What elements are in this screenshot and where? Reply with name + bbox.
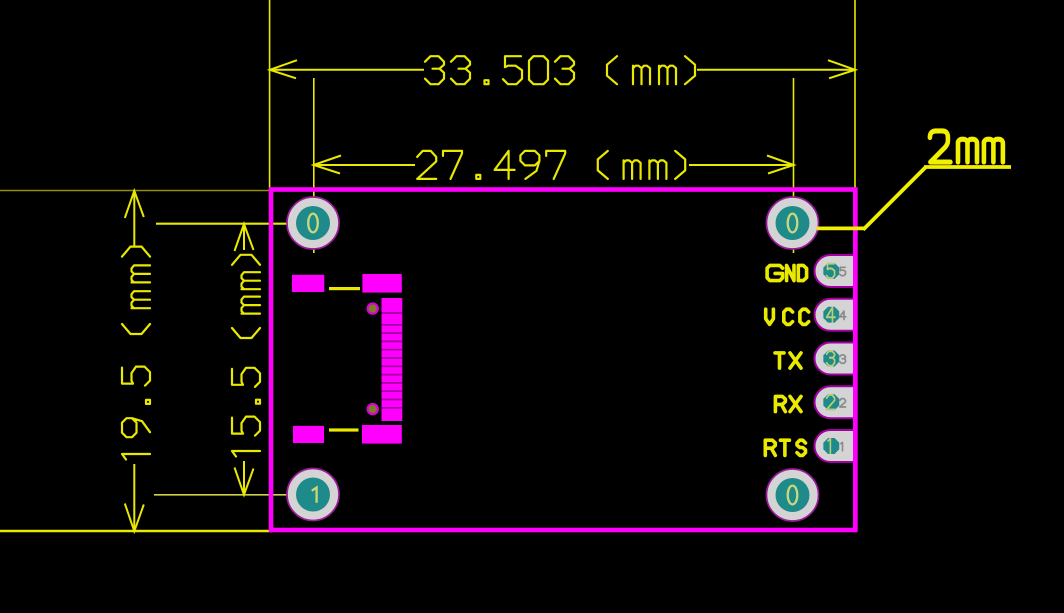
mounting hole H4 bottom-right	[767, 469, 819, 521]
pin pad 3 (TX)	[815, 343, 856, 375]
arrowhead top of dim 15.5	[235, 224, 254, 251]
arrowhead left of dim 27.497	[314, 156, 341, 174]
dimension text 19.5 (mm) rotated	[122, 247, 150, 460]
pin pad 2 (RX)	[815, 386, 856, 418]
pad P2 top-right of USB connector U1	[362, 274, 401, 293]
wire: board right edge overlay	[853, 190, 858, 531]
dimension text 15.5 (mm) rotated	[232, 255, 260, 457]
wire: extension line left of dim 27.497	[313, 78, 315, 253]
pin label RTS	[765, 440, 805, 455]
wire: board-bottom extension line (left, dim 19.5)	[0, 530, 273, 532]
silkscreen line bottom of USB connector U1	[329, 428, 359, 431]
pin pad 4 (VCC)	[815, 299, 856, 331]
dimension 15.5 (mm) vertical line	[235, 224, 254, 495]
wire: hole-bottom connector line (dim 15.5)	[154, 494, 290, 496]
arrowhead right of dim 33.503	[828, 60, 855, 78]
wire: board-top extension line (left, dim 19.5)	[0, 190, 269, 192]
wire: extension line left of dim 33.503	[269, 0, 271, 188]
arrowhead bottom of dim 15.5	[235, 468, 254, 495]
arrowhead left of dim 33.503	[270, 60, 297, 78]
dimension 33.503 (mm) line	[270, 60, 855, 78]
via V2 bottom	[367, 403, 379, 415]
silkscreen line top of USB connector U1	[329, 287, 360, 290]
pad P3 bottom-left of USB connector U1	[293, 426, 324, 443]
dimension 19.5 (mm) vertical line	[125, 191, 144, 531]
mounting hole H1 top-left	[287, 197, 339, 249]
dimension text 27.497 (mm)	[417, 151, 685, 179]
leader line for 2mm callout	[817, 167, 1011, 230]
pin label VCC	[766, 309, 809, 324]
wire: extension line right of dim 33.503	[854, 0, 856, 188]
wire: hole-top connector line (dim 15.5)	[156, 223, 295, 225]
board outline	[271, 190, 855, 531]
dimension 27.497 (mm) line	[314, 156, 794, 174]
pin label RX	[775, 396, 801, 411]
arrowhead right of dim 27.497	[767, 156, 794, 174]
pad P1 top-left of USB connector U1	[292, 275, 324, 292]
callout text 2mm	[930, 131, 1003, 162]
dimension text 33.503 (mm)	[425, 56, 695, 84]
pin pad 1 (RTS)	[815, 430, 856, 462]
mounting hole H3 bottom-left	[287, 469, 339, 521]
pin label GND	[767, 265, 807, 280]
via V1 top	[367, 302, 379, 314]
arrowhead bottom of dim 19.5	[125, 504, 144, 532]
arrowhead top of dim 19.5	[125, 191, 144, 218]
mounting hole H2 top-right	[767, 197, 819, 249]
pin column of USB connector U1	[382, 298, 403, 421]
pad P4 bottom-right of USB connector U1	[362, 425, 402, 444]
pin pad 5 (GND)	[815, 255, 856, 287]
pin label TX	[775, 353, 801, 368]
wire: extension line right of dim 27.497	[793, 78, 795, 253]
